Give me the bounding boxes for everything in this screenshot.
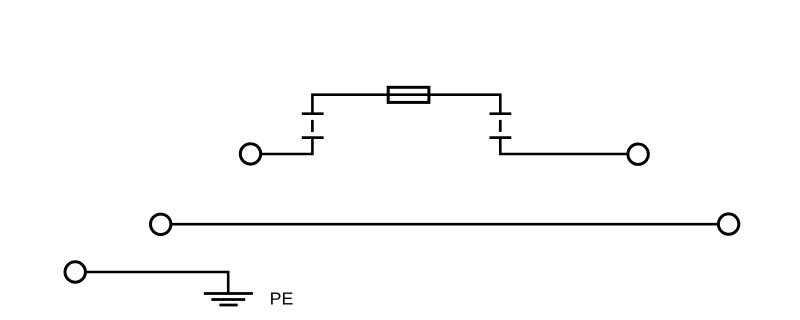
disconnect contact right: upper tick xyxy=(490,112,512,115)
terminal 4 (middle-right connection point) xyxy=(718,214,738,234)
terminal 1 (top-left connection point) xyxy=(240,144,260,164)
wire: terminal 1 to left disconnect xyxy=(262,138,313,154)
ground (protective earth): bottom bar xyxy=(219,304,237,307)
terminal 5 (PE connection point) xyxy=(65,262,85,282)
terminal 2 (top-right connection point) xyxy=(628,144,648,164)
disconnect contact left: middle dash xyxy=(311,120,314,132)
svg-text:PE: PE xyxy=(270,289,294,309)
disconnect contact right: middle dash xyxy=(499,120,502,132)
disconnect contact right: lower tick xyxy=(490,136,512,139)
terminal 3 (middle-left connection point) xyxy=(151,214,171,234)
ground (protective earth): top bar xyxy=(204,292,253,295)
wire: right disconnect to terminal 2 xyxy=(500,138,627,154)
wire: middle feed-through bus xyxy=(172,223,718,226)
fuse F1 xyxy=(388,87,429,102)
disconnect contact left: upper tick xyxy=(302,112,324,115)
wire: top link, left disconnect up through fuse to right disconnect xyxy=(312,95,500,114)
ground (protective earth): middle bar xyxy=(211,298,245,301)
wire: PE terminal to earth xyxy=(86,272,228,294)
disconnect contact left: lower tick xyxy=(302,136,324,139)
